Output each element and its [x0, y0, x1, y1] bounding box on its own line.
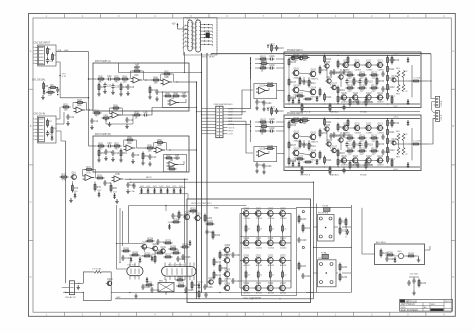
wire pairs mid B — [304, 140, 309, 142]
capacitor C40 — [103, 180, 111, 186]
wire CN2 internal — [47, 47, 49, 58]
resistor R116A vert — [337, 95, 346, 104]
svg-text:GND: GND — [116, 297, 121, 299]
svg-text:CN2 S/E INPUT: CN2 S/E INPUT — [34, 43, 51, 45]
svg-text:Q102: Q102 — [311, 69, 317, 71]
svg-text:INPUT AMP (A): INPUT AMP (A) — [95, 60, 111, 63]
svg-text:R226: R226 — [170, 246, 176, 248]
capacitor C101A — [269, 56, 276, 61]
resistor R158B — [304, 161, 313, 163]
svg-text:P01 SPK A: P01 SPK A — [318, 212, 329, 215]
svg-text:OUT B: OUT B — [441, 114, 443, 120]
resistor R208 — [122, 248, 131, 252]
wire bus to CN8 c — [206, 118, 207, 119]
box power amp channel B — [284, 115, 421, 171]
svg-text:Q123: Q123 — [377, 93, 383, 95]
svg-text:R132: R132 — [371, 85, 377, 87]
title block cols — [408, 299, 444, 311]
dashed board boundary — [216, 19, 218, 53]
display pin row labels — [186, 53, 216, 55]
transistor Q113A top — [376, 60, 385, 71]
resistor R211 — [156, 250, 165, 254]
box display board — [184, 18, 218, 56]
box input amp channel A — [93, 63, 189, 111]
diode D207 — [189, 240, 192, 246]
resistor R62 — [165, 155, 174, 159]
resistor R48 — [172, 93, 181, 97]
resistor R109A — [292, 55, 301, 62]
resistor R227 vert — [154, 255, 156, 264]
transistor Q10 — [70, 173, 76, 180]
box output device array — [242, 209, 297, 296]
svg-text:R113: R113 — [326, 97, 332, 99]
ground G36 — [131, 159, 135, 164]
title block logo — [400, 300, 405, 302]
emitter resistor RE3t — [282, 224, 287, 233]
resistor R230 vert — [339, 217, 348, 226]
svg-text:BIAS ADJ: BIAS ADJ — [330, 174, 339, 177]
resistor R76 vert — [71, 184, 78, 193]
wire pairs mid A — [304, 77, 309, 79]
capacitor C110B — [356, 162, 366, 168]
wire box B input — [89, 110, 97, 146]
diode D12 — [97, 190, 102, 198]
wire top inner drop mid — [165, 205, 166, 211]
svg-text:6: 6 — [193, 43, 194, 45]
resistor R218 — [172, 250, 181, 254]
resistor R154B vert — [319, 151, 321, 160]
capacitor C104A — [262, 100, 272, 106]
svg-text:C221: C221 — [305, 276, 311, 278]
resistor R153A vert — [319, 66, 328, 75]
label output stage — [191, 203, 212, 205]
svg-text:A3: A3 — [424, 306, 426, 309]
svg-text:R3: R3 — [54, 55, 56, 57]
emitter resistor RE2t — [269, 224, 274, 233]
wire LTP link A — [299, 73, 310, 92]
svg-text:SH 1/1: SH 1/1 — [445, 301, 451, 303]
resistor R215 vert — [213, 258, 222, 267]
svg-text:2SC2240: 2SC2240 — [311, 159, 321, 161]
diode D103A — [316, 96, 319, 102]
svg-text:R242: R242 — [408, 253, 414, 255]
svg-text:6: 6 — [33, 63, 34, 65]
label box B title — [95, 133, 111, 136]
svg-text:Q210: Q210 — [107, 279, 113, 281]
svg-text:C113: C113 — [385, 152, 391, 154]
svg-text:Q107: Q107 — [332, 83, 338, 85]
output transistor Q332 — [266, 283, 275, 294]
svg-text:R152: R152 — [368, 165, 374, 167]
wire LTP link B — [299, 136, 310, 155]
svg-text:A1943: A1943 — [256, 292, 263, 295]
svg-text:R122: R122 — [371, 135, 377, 137]
svg-text:C113: C113 — [385, 89, 391, 91]
svg-text:R1: R1 — [49, 49, 51, 51]
transistor Q111A top — [353, 60, 362, 71]
border inner frame — [33, 18, 451, 312]
svg-text:R131: R131 — [359, 148, 365, 150]
trim pot VR2 level — [102, 115, 111, 121]
svg-text:47K: 47K — [62, 179, 66, 181]
svg-text:R222: R222 — [301, 266, 307, 268]
box power amp channel A — [284, 52, 421, 108]
svg-text:C101: C101 — [269, 56, 275, 58]
svg-text:10K: 10K — [148, 150, 152, 152]
resistor R216 vert — [213, 271, 222, 280]
svg-text:2SA970: 2SA970 — [311, 140, 319, 143]
ground G62 — [412, 291, 416, 296]
wire amp B to CN12 — [429, 119, 436, 145]
wire cluster link y243 — [116, 243, 142, 244]
svg-text:Q312: Q312 — [268, 238, 274, 240]
wire U3B fb — [161, 74, 174, 82]
transistor Q131B — [290, 119, 295, 123]
rail stub marks B — [288, 118, 388, 168]
label bias — [214, 207, 219, 210]
wire from display block down — [119, 52, 203, 73]
capacitor C207 — [150, 287, 160, 293]
resistor R5 vert — [43, 82, 49, 91]
wire left col A — [288, 67, 290, 94]
svg-text:FILE: SCH-MAIN: FILE: SCH-MAIN — [401, 309, 418, 312]
diode D1 — [42, 87, 46, 95]
resistor R113A vert — [324, 93, 333, 102]
resistor R202 vert — [204, 214, 213, 223]
resistor R107A vert — [288, 78, 297, 87]
svg-text:RE3: RE3 — [396, 157, 400, 159]
svg-text:Q101: Q101 — [294, 131, 300, 133]
svg-text:4: 4 — [33, 129, 34, 131]
capacitor C32 shunt — [104, 149, 112, 155]
resistor R42 fb — [163, 71, 172, 75]
svg-text:.22: .22 — [260, 275, 262, 277]
resistor R130B — [346, 148, 355, 155]
transistor Q105B — [323, 125, 330, 131]
transistor Q206 driver — [223, 283, 231, 291]
resistor R151B vert — [349, 161, 358, 170]
wire block bot bus — [306, 292, 351, 294]
emitter resistor RE2b — [269, 270, 274, 279]
transistor Q101B — [292, 131, 302, 142]
label CN8 — [214, 104, 234, 106]
connector CN11 out A — [434, 96, 440, 107]
svg-text:D: D — [452, 275, 454, 279]
svg-text:R103: R103 — [260, 128, 266, 130]
capacitor C12 — [66, 114, 74, 120]
transistor Q108A bias — [337, 73, 344, 80]
capacitor C209 — [385, 256, 395, 262]
wire right amps feed B — [246, 121, 253, 153]
svg-text:R207: R207 — [222, 281, 228, 283]
resistor R40 — [152, 77, 161, 84]
capacitor C18 — [143, 112, 149, 117]
wire U5A fb — [124, 140, 137, 148]
wire CN8 d — [202, 121, 210, 130]
svg-text:A1943: A1943 — [280, 264, 287, 267]
svg-text:1: 1 — [33, 47, 34, 49]
wire driver rows A — [341, 65, 384, 97]
svg-text:AMP PWR-2U: AMP PWR-2U — [401, 303, 416, 306]
capacitor C225 — [184, 287, 194, 293]
wire top inner drop left — [128, 206, 130, 244]
svg-text:C220: C220 — [301, 240, 307, 242]
transistor Q110A top — [342, 60, 351, 71]
svg-text:Q106: Q106 — [327, 140, 333, 142]
op-amp U6A servo — [167, 160, 179, 168]
box CN2 input block — [38, 45, 56, 66]
output transistor Q303 — [278, 209, 287, 220]
transistor Q205 driver — [223, 270, 232, 281]
ground G26 — [126, 91, 130, 96]
svg-text:Q207: Q207 — [142, 243, 148, 245]
label junction TP1 — [62, 74, 67, 79]
svg-text:F1 T6.3A: F1 T6.3A — [93, 268, 102, 271]
svg-text:C5200: C5200 — [256, 247, 263, 249]
resistor R74 — [96, 175, 105, 179]
svg-text:R112: R112 — [326, 59, 332, 61]
wire feed vert A — [250, 57, 252, 109]
ground G25 — [97, 92, 101, 97]
wire VAS A — [327, 68, 341, 87]
diode D208 — [146, 277, 149, 283]
IC U21 bargraph driver — [195, 18, 201, 52]
transistor Q207 — [140, 243, 148, 250]
transistor Q113B top — [376, 123, 385, 134]
svg-text:R46: R46 — [165, 93, 170, 95]
capacitor C107A — [332, 69, 342, 75]
left border zone ticks — [29, 89, 34, 240]
transistor Q107A — [330, 83, 337, 90]
wire output col 0 — [245, 216, 247, 285]
wire U5A out — [137, 147, 147, 149]
bridge rectifier BR1 — [158, 280, 174, 291]
svg-text:2: 2 — [193, 27, 194, 29]
rail vertical V+ — [304, 200, 306, 299]
wire U7B out long — [125, 179, 189, 180]
svg-text:R159: R159 — [394, 60, 400, 62]
resistor R108A vert — [288, 94, 297, 103]
svg-text:R107: R107 — [291, 82, 297, 84]
svg-text:RE1: RE1 — [396, 68, 400, 70]
resistor R219 vert — [191, 281, 200, 290]
wire row vert links — [72, 181, 111, 184]
resistor R205 vert — [219, 251, 228, 260]
wire U5B out — [167, 149, 190, 150]
svg-text:R32: R32 — [114, 76, 119, 78]
svg-text:R201: R201 — [190, 208, 196, 210]
transistor Q103B — [292, 148, 303, 159]
resistor R162B2 vert — [329, 166, 331, 175]
transistor Q104B — [309, 150, 320, 161]
wire rails crosslink — [313, 247, 352, 248]
svg-text:+VCC: +VCC — [393, 117, 399, 119]
svg-text:B: B — [30, 124, 32, 128]
resistor R161B2 vert — [301, 166, 303, 175]
wire servo B — [266, 151, 270, 154]
svg-text:C4883: C4883 — [377, 132, 384, 134]
resistor R22 feedback — [76, 100, 85, 104]
svg-text:R157: R157 — [297, 93, 303, 95]
ground G33 — [148, 162, 152, 167]
label rotated heatsink — [345, 225, 348, 238]
svg-text:R112: R112 — [326, 122, 332, 124]
diode D103B — [316, 159, 319, 165]
resistor R153B vert — [319, 129, 328, 138]
capacitor C42 — [126, 182, 134, 188]
svg-text:R229: R229 — [177, 277, 183, 279]
svg-text:1.5A: 1.5A — [130, 190, 135, 193]
svg-text:R52: R52 — [114, 143, 119, 145]
resistor R106A vert — [288, 58, 297, 67]
capacitor C106B — [329, 133, 339, 139]
svg-text:C5200: C5200 — [244, 218, 251, 220]
connector CN8 dual header — [216, 106, 223, 138]
resistor R109B — [292, 118, 301, 125]
TH2 center pin — [326, 272, 328, 274]
box aux supply — [375, 244, 425, 265]
svg-text:R102: R102 — [261, 61, 267, 63]
svg-text:F2 8A: F2 8A — [323, 205, 329, 208]
rail stub marks A — [288, 55, 388, 105]
resistor R112A vert — [324, 55, 333, 64]
resistor R20 — [62, 104, 71, 111]
ground G51A — [262, 107, 266, 112]
svg-text:6: 6 — [185, 41, 186, 43]
svg-text:R107: R107 — [291, 145, 297, 147]
svg-text:R225: R225 — [165, 240, 171, 242]
svg-text:C101: C101 — [269, 119, 275, 121]
wire cluster out — [60, 97, 88, 99]
output transistor Q312 — [266, 238, 275, 249]
svg-text:R115: R115 — [340, 90, 346, 92]
svg-text:R141: R141 — [389, 132, 395, 134]
wire emitters A — [396, 78, 408, 85]
svg-text:.22: .22 — [272, 229, 274, 231]
diode D201 — [168, 222, 174, 230]
resistor R229 — [176, 277, 185, 281]
ground G35 — [97, 158, 101, 163]
svg-text:R121: R121 — [359, 135, 365, 137]
svg-text:DWG: DWG — [401, 307, 406, 309]
wire +rail B — [285, 118, 420, 120]
op-amp U4A servo — [168, 98, 180, 106]
output transistor Q301 — [254, 209, 263, 220]
transistor Q121B bottom — [351, 156, 360, 167]
transistor Q123B bottom — [376, 156, 385, 167]
resistor R111B vert — [308, 142, 316, 151]
wire aux box — [404, 256, 419, 258]
wire to box1 input — [88, 52, 89, 110]
diode D102B — [297, 159, 303, 167]
transistor Q121A bottom — [351, 93, 360, 104]
wire U3B out to box edge — [174, 81, 190, 82]
resistor R120A — [346, 72, 355, 79]
svg-text:R152: R152 — [368, 102, 374, 104]
resistor R159B vert — [391, 119, 400, 128]
svg-text:Q106: Q106 — [327, 77, 333, 79]
resistor R214 vert — [178, 211, 187, 220]
svg-text:C206: C206 — [185, 257, 191, 259]
capacitor C109A — [358, 79, 368, 85]
resistor R156A vert — [376, 77, 385, 86]
ground G51B — [262, 170, 266, 175]
wire bridge — [165, 279, 167, 295]
svg-text:C: C — [30, 200, 32, 204]
wire CN2 out right — [56, 50, 89, 52]
svg-text:+VCC: +VCC — [393, 54, 399, 56]
capacitor C102B — [269, 128, 276, 133]
resistor R160B vert — [391, 159, 393, 168]
relay RY1 — [162, 264, 197, 276]
op-amp U5B — [154, 145, 166, 153]
ground G15 — [125, 124, 129, 129]
connector CN12 out B — [434, 111, 440, 122]
resistor R103B — [259, 128, 268, 135]
svg-text:R30: R30 — [98, 76, 103, 78]
fuse F2 block — [323, 205, 331, 212]
resistor R228 — [181, 244, 190, 248]
svg-text:R105: R105 — [267, 83, 273, 85]
capacitor C221 — [301, 273, 311, 279]
resistor R7 — [46, 90, 55, 97]
title text row2 — [401, 301, 451, 306]
svg-text:R72: R72 — [86, 167, 91, 169]
svg-text:Q120: Q120 — [341, 156, 347, 158]
resistor R233 vert — [339, 273, 348, 282]
resistor R115B vert — [337, 149, 346, 158]
resistor R234 vert — [198, 290, 200, 299]
resistor R151A vert — [349, 98, 358, 107]
ground G50B — [255, 169, 259, 174]
resistor R24 — [93, 110, 102, 117]
svg-text:R208: R208 — [123, 248, 129, 250]
svg-text:Q107: Q107 — [332, 146, 338, 148]
label under array 1 — [243, 297, 262, 300]
svg-text:Q105: Q105 — [325, 62, 331, 64]
connector CN6 power — [69, 281, 74, 295]
svg-text:R220: R220 — [301, 219, 307, 221]
resistor R3 vert — [52, 53, 57, 62]
title block frame — [400, 299, 453, 311]
connector CN3 pin column — [33, 117, 44, 141]
capacitor C105A — [302, 79, 312, 85]
capacitor C23 shunt — [111, 84, 119, 90]
right border zone ticks — [451, 89, 455, 240]
wire box A out — [189, 81, 197, 83]
resistor R224 — [146, 238, 155, 242]
svg-text:C4883: C4883 — [355, 69, 362, 71]
op-amp U3A — [131, 74, 143, 83]
svg-text:7: 7 — [33, 139, 34, 141]
TH1 center pin — [325, 227, 327, 229]
rail labels B — [393, 117, 399, 171]
svg-text:R122: R122 — [371, 72, 377, 74]
transistor Q107B — [330, 146, 337, 153]
box servo A — [254, 83, 277, 98]
svg-text:R156: R156 — [379, 81, 385, 83]
emitter resistor RE4A — [402, 85, 407, 94]
wire out to edge A — [421, 80, 429, 82]
svg-text:C111: C111 — [346, 135, 352, 137]
box A servo sub-box — [163, 92, 190, 108]
TH1 hole 1 — [319, 217, 322, 220]
resistor R33 vert — [98, 83, 105, 92]
resistor R106B vert — [288, 121, 297, 130]
label CN11 — [440, 100, 443, 106]
svg-text:Q301: Q301 — [256, 209, 262, 211]
resistor R130A — [346, 85, 355, 92]
